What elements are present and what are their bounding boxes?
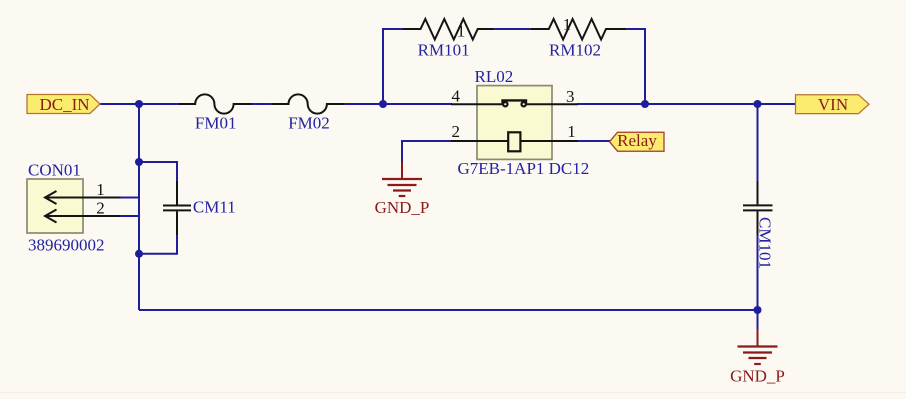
- port VIN flag: [796, 95, 870, 114]
- relay contact right circle: [522, 102, 526, 106]
- fuse FM01: [179, 94, 252, 132]
- svg-text:4: 4: [452, 87, 461, 106]
- svg-text:FM02: FM02: [288, 114, 330, 133]
- svg-text:DC_IN: DC_IN: [39, 95, 89, 114]
- faint sheet edge line: [0, 392, 906, 394]
- svg-text:389690002: 389690002: [28, 236, 105, 255]
- relay contact pin 4 line: [451, 103, 503, 105]
- relay contact pin 3 line: [526, 103, 578, 105]
- svg-text:FM01: FM01: [195, 114, 237, 133]
- svg-text:RM102: RM102: [549, 40, 601, 59]
- wire DC_IN to junction1: [100, 103, 139, 105]
- svg-text:Relay: Relay: [617, 131, 657, 150]
- ground GND_P left: [375, 162, 430, 218]
- wire branch to CM11 top: [139, 162, 177, 181]
- svg-text:CM11: CM11: [193, 197, 236, 216]
- capacitor CM11: [163, 181, 236, 235]
- wire CM11 bottom branch: [139, 235, 177, 254]
- capacitor CM101: [743, 181, 775, 269]
- wire CON01 pin 2 stub: [120, 215, 139, 217]
- wire rail junction down to ground: [757, 310, 759, 330]
- wire RM101 to RM102: [494, 28, 530, 30]
- svg-text:2: 2: [452, 122, 461, 141]
- port DC_IN flag: [27, 95, 100, 114]
- wire junction1 to FM01: [139, 103, 179, 105]
- wire relay pin 3 to junction3: [577, 103, 645, 105]
- wire relay pin 2 to ground: [402, 141, 451, 162]
- node junction2: [379, 100, 387, 108]
- node CM101 bottom: [754, 306, 762, 314]
- node CM11 top: [135, 158, 143, 166]
- node CM11 bottom: [135, 250, 143, 258]
- wire RM102 down to junction3: [627, 29, 645, 104]
- relay contact lever: [503, 100, 527, 103]
- svg-text:RM101: RM101: [418, 40, 470, 59]
- wire junction4 down to CM101: [757, 104, 759, 181]
- svg-text:CM101: CM101: [756, 217, 775, 269]
- wire bottom rail: [139, 309, 758, 311]
- relay coil pin 1 line: [520, 140, 578, 142]
- wire FM01 to FM02: [252, 103, 272, 105]
- svg-text:VIN: VIN: [818, 95, 848, 114]
- node junction3: [641, 100, 649, 108]
- wire CON01 pin 1 stub: [120, 197, 139, 199]
- svg-text:RL02: RL02: [475, 67, 514, 86]
- svg-text:1: 1: [457, 22, 466, 41]
- relay U RL02 body: [458, 67, 590, 178]
- wire relay pin 1 to Relay flag: [578, 140, 610, 142]
- CON01 pin 1 arrow: [45, 180, 121, 204]
- node junction1: [135, 100, 143, 108]
- svg-text:2: 2: [96, 198, 105, 217]
- resistor RM101: [403, 19, 494, 59]
- wire junction3 to junction4: [645, 103, 758, 105]
- wire riser junction2 up to RM101: [383, 29, 403, 104]
- net label Relay flag: [610, 131, 665, 151]
- svg-text:1: 1: [96, 180, 105, 199]
- wire CM101 bottom to rail: [757, 235, 759, 310]
- wire vertical through CON01 pins: [138, 162, 140, 310]
- wire junction4 to VIN: [758, 103, 797, 105]
- connector CON01 body: [27, 161, 105, 255]
- svg-text:1: 1: [567, 122, 576, 141]
- wire FM02 to junction2: [345, 103, 383, 105]
- ground GND_P right: [730, 329, 785, 386]
- CON01 pin 2 arrow: [45, 198, 121, 222]
- relay coil rectangle: [508, 132, 520, 151]
- svg-text:GND_P: GND_P: [375, 198, 430, 217]
- svg-text:GND_P: GND_P: [730, 367, 785, 386]
- wire junction1 down to node dot: [138, 104, 140, 162]
- fuse FM02: [271, 94, 345, 132]
- svg-text:CON01: CON01: [28, 161, 81, 180]
- node junction4: [754, 100, 762, 108]
- wire junction2 to relay pin 4: [383, 103, 452, 105]
- svg-text:3: 3: [566, 87, 575, 106]
- svg-text:G7EB-1AP1 DC12: G7EB-1AP1 DC12: [458, 159, 590, 178]
- relay contact left circle: [503, 102, 507, 106]
- relay coil pin 2 line: [451, 140, 508, 142]
- resistor RM102: [531, 15, 627, 60]
- svg-text:1: 1: [563, 15, 572, 34]
